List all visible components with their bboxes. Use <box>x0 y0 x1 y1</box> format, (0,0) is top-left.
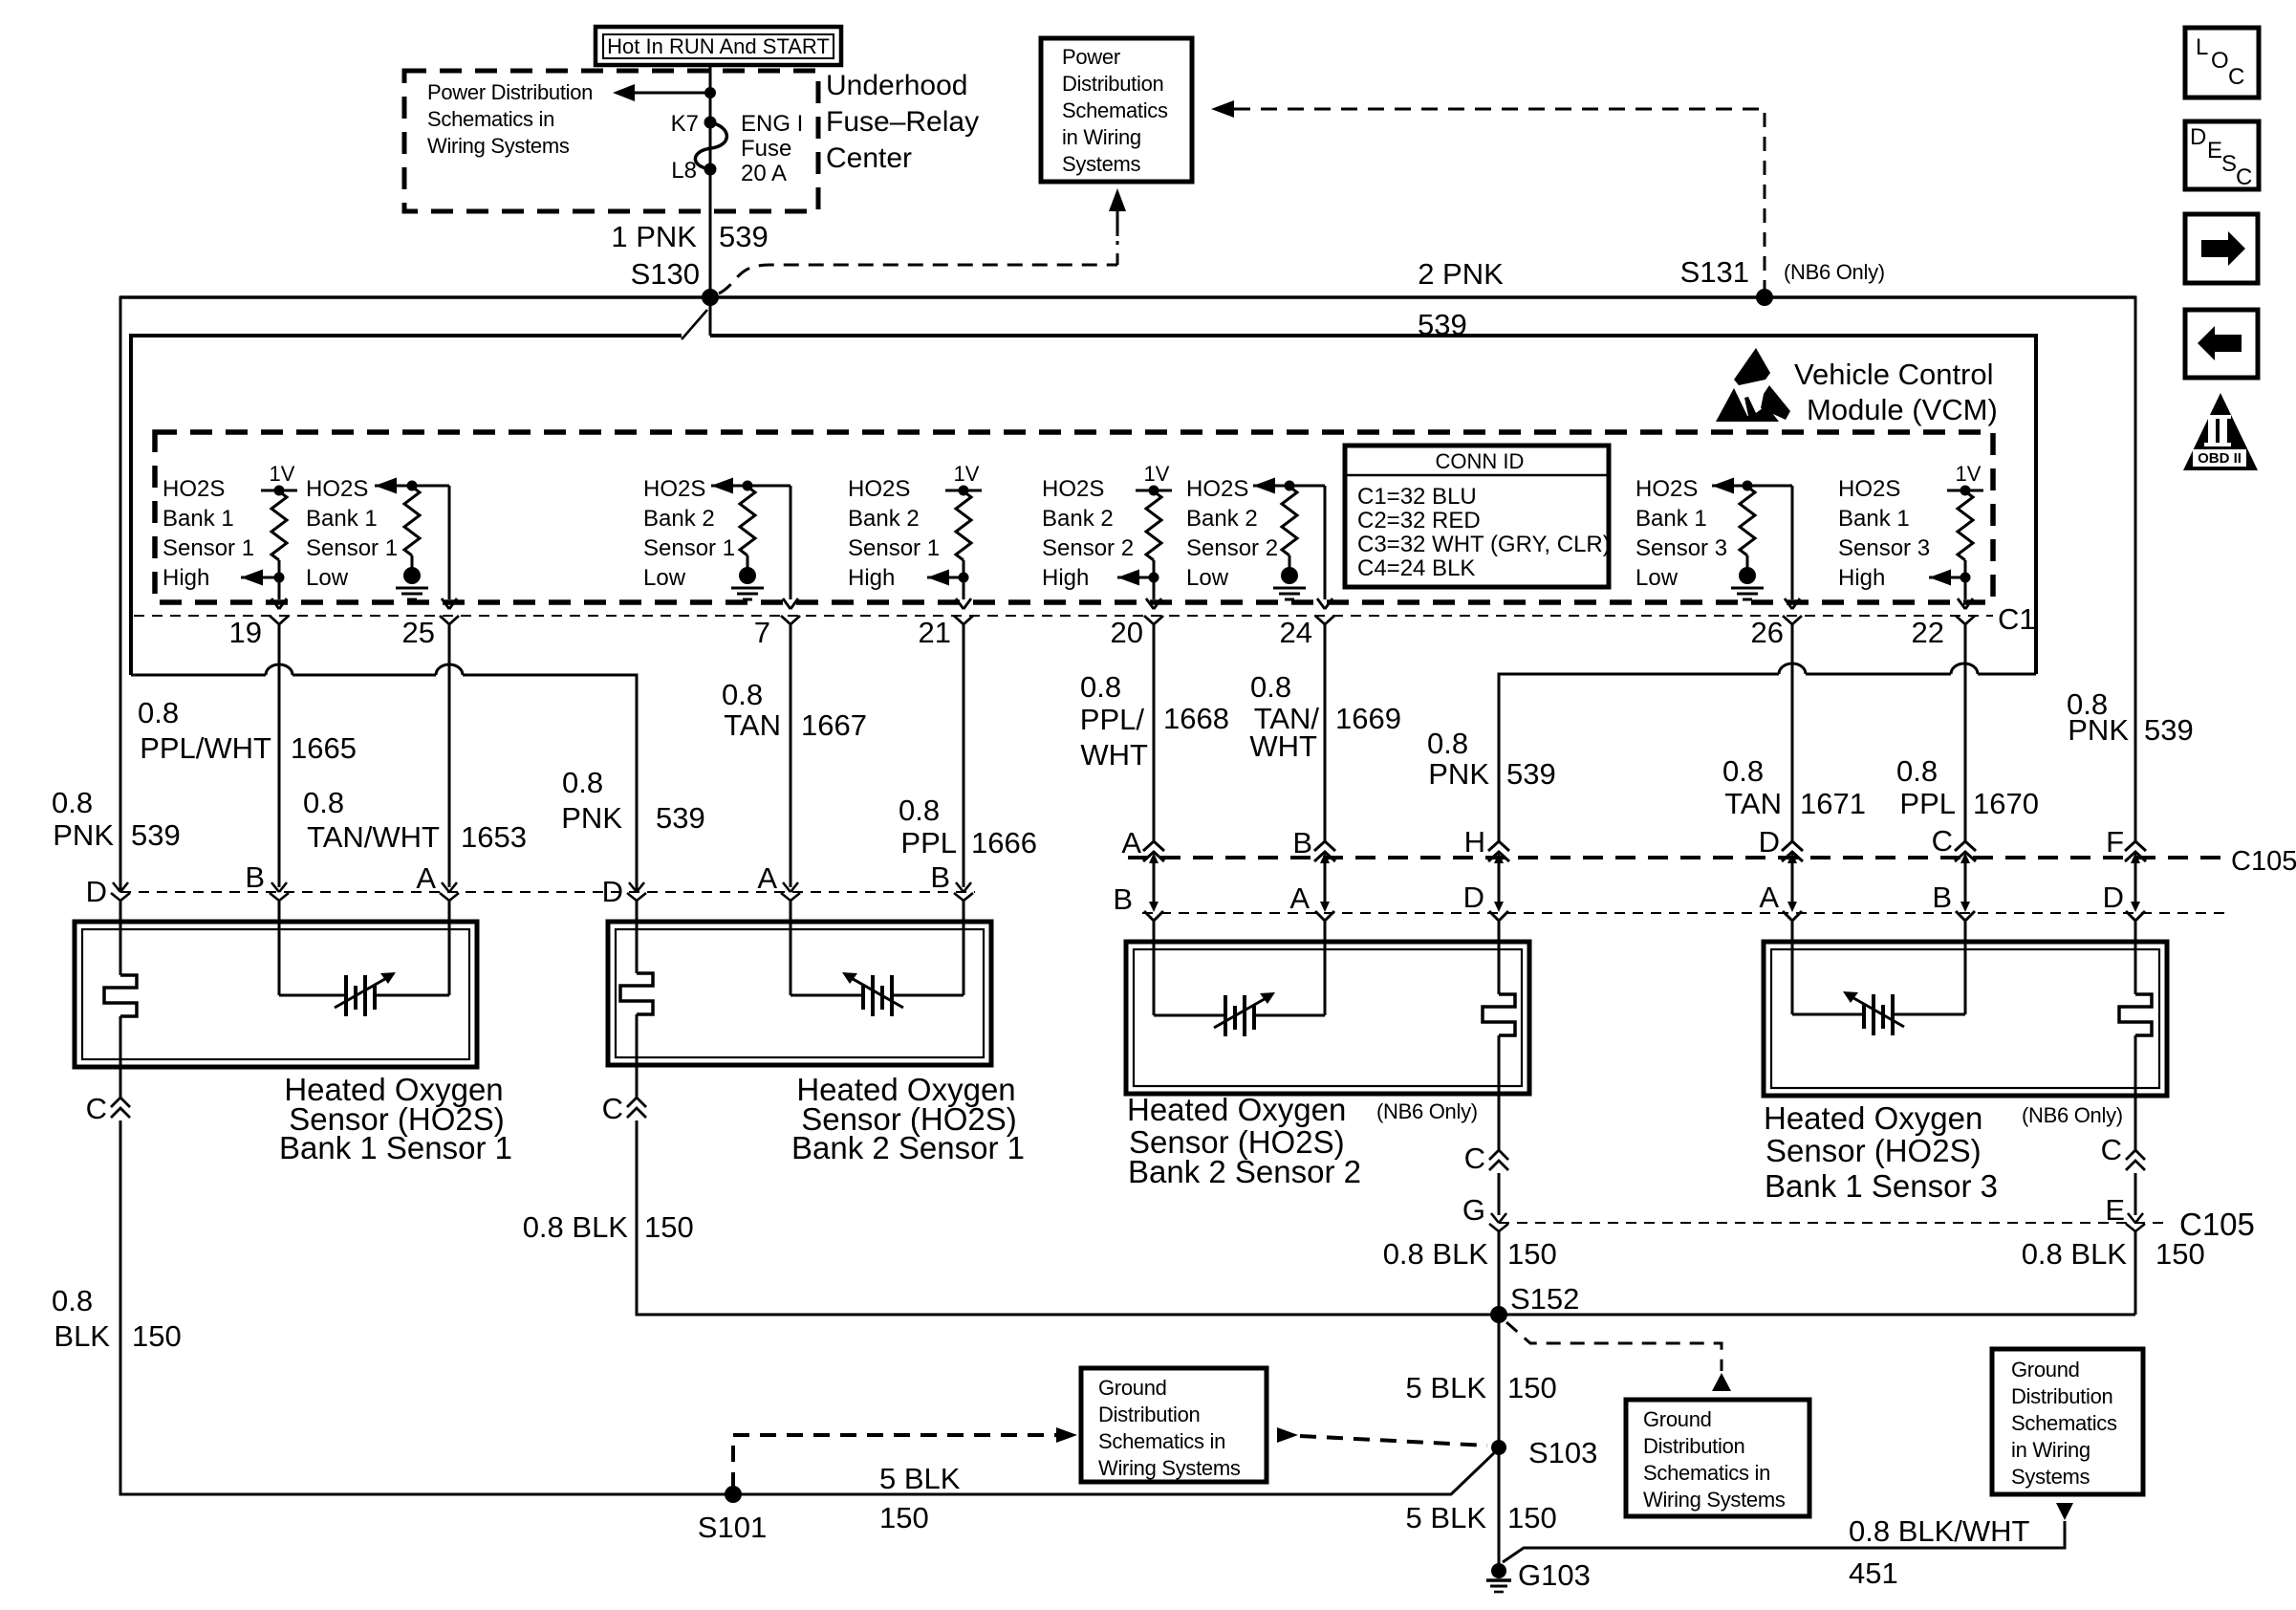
connector crossing at x=666 <box>627 882 646 901</box>
Power Distribution Schematics box (top middle) <box>1041 38 1192 182</box>
svg-text:0.8: 0.8 <box>1080 670 1121 704</box>
svg-text:TAN/WHT: TAN/WHT <box>307 820 440 854</box>
svg-text:HO2S: HO2S <box>1838 476 1900 502</box>
wire 1671 (pin 26 to sensor4 A) <box>1791 624 1794 1014</box>
svg-text:Sensor 1: Sensor 1 <box>848 535 940 561</box>
svg-text:150: 150 <box>1507 1237 1557 1271</box>
svg-text:0.8: 0.8 <box>899 794 940 827</box>
svg-text:E: E <box>2207 138 2222 163</box>
svg-text:539: 539 <box>131 818 181 852</box>
ESD triangle icon <box>1716 348 1790 422</box>
svg-text:Power Distribution: Power Distribution <box>427 80 593 104</box>
label 5 BLK 150 (S152 to S103) <box>1406 1371 1557 1404</box>
svg-text:S: S <box>2221 151 2237 177</box>
label Heated Oxygen Sensor (HO2S) Bank 2 Sensor 1 <box>791 1072 1025 1165</box>
svg-text:1669: 1669 <box>1335 702 1401 735</box>
svg-text:H: H <box>1464 825 1485 859</box>
svg-text:A: A <box>1121 826 1141 859</box>
arrow into Ground box 3 <box>2056 1503 2073 1520</box>
svg-text:150: 150 <box>2155 1237 2205 1271</box>
label 0.8 PPL 1670 <box>1896 754 2039 820</box>
label Heated Oxygen Sensor (HO2S) Bank 1 Sensor 3 <box>1764 1100 1998 1204</box>
C105 crossing at x=2056 <box>1955 841 1976 863</box>
svg-text:1671: 1671 <box>1800 787 1866 820</box>
sensor element sensor2 <box>791 972 964 1016</box>
label Underhood Fuse-Relay Center <box>826 70 979 174</box>
svg-text:Sensor (HO2S): Sensor (HO2S) <box>1765 1133 1982 1168</box>
right arrow icon <box>2185 214 2258 283</box>
dashed ref from S131 to Power Distribution box <box>1211 100 1765 294</box>
label 0.8 BLK 150 (sensor3 G wire) <box>1383 1237 1557 1271</box>
svg-text:1665: 1665 <box>291 731 357 765</box>
svg-text:Sensor 1: Sensor 1 <box>306 535 398 561</box>
svg-text:C: C <box>2101 1133 2122 1166</box>
svg-text:0.8: 0.8 <box>1250 670 1291 704</box>
label 1 PNK 539 <box>611 220 768 253</box>
node S103 <box>1491 1440 1506 1455</box>
label 5 BLK 150 (S103 to G103) <box>1406 1501 1557 1534</box>
dashed ref from S101 to Ground box 1 <box>733 1427 1077 1489</box>
label 0.8 BLK 150 (sensor4 E wire) <box>2022 1237 2205 1271</box>
svg-text:1 PNK: 1 PNK <box>611 220 697 253</box>
label 0.8 BLK 150 (sensor1 C wire) <box>52 1284 182 1353</box>
svg-text:PPL: PPL <box>900 826 957 859</box>
sensor element sensor1 <box>279 972 449 1016</box>
VCM bottom-right wire segment (0.8 PNK 539 to sensor 3) with bumps <box>1499 664 2036 1571</box>
svg-text:Bank 1: Bank 1 <box>1838 506 1910 532</box>
VCM pin 22 circuit: HO2S Bank 1 Sensor 3 High (1V + resistor) <box>1929 462 1983 624</box>
svg-text:A: A <box>757 861 777 895</box>
Underhood Fuse-Relay Center dashed box <box>404 71 818 211</box>
connector crossing at x=2234 row2 <box>2126 902 2145 921</box>
svg-text:25: 25 <box>402 616 435 649</box>
svg-text:C: C <box>1464 1142 1485 1175</box>
svg-text:1668: 1668 <box>1163 702 1229 735</box>
svg-text:Module (VCM): Module (VCM) <box>1807 393 1998 426</box>
arrow out of Ground box 1 (right) <box>1277 1427 1298 1443</box>
svg-text:E: E <box>2105 1193 2125 1227</box>
svg-text:150: 150 <box>644 1210 694 1244</box>
svg-text:D: D <box>2103 881 2124 914</box>
svg-text:Low: Low <box>643 565 686 591</box>
svg-text:21: 21 <box>919 616 951 649</box>
svg-text:D: D <box>2190 124 2206 150</box>
svg-text:G: G <box>1462 1193 1485 1227</box>
sensor3/4 connector dashed line <box>1142 912 2227 914</box>
VCM pin 20 circuit: HO2S Bank 2 Sensor 2 High (1V + resistor) <box>1117 462 1172 624</box>
svg-text:0.8: 0.8 <box>562 766 603 799</box>
svg-text:A: A <box>1289 881 1310 915</box>
C105 crossing at x=1568 <box>1488 841 1509 863</box>
svg-text:150: 150 <box>132 1319 182 1353</box>
VCM pin 19 circuit: HO2S Bank 1 Sensor 1 High (1V + resistor) <box>241 462 297 624</box>
svg-text:Schematics: Schematics <box>1062 98 1168 122</box>
svg-text:(NB6 Only): (NB6 Only) <box>1376 1099 1478 1123</box>
label 2 PNK 539 <box>1418 257 1504 341</box>
svg-text:D: D <box>1759 825 1780 859</box>
node S130 <box>702 289 719 306</box>
label 0.8 TAN 1671 <box>1722 754 1866 820</box>
svg-text:B: B <box>245 860 265 894</box>
svg-text:1667: 1667 <box>801 708 867 742</box>
connector crossing at x=470 <box>440 882 459 901</box>
label 0.8 PPL/WHT 1665 <box>138 696 357 765</box>
svg-text:Schematics: Schematics <box>2011 1411 2117 1435</box>
label 0.8 PPL/WHT 1668 <box>1080 670 1229 772</box>
svg-text:C1=32 BLU: C1=32 BLU <box>1357 484 1477 510</box>
svg-text:PPL/: PPL/ <box>1080 703 1145 736</box>
svg-text:0.8: 0.8 <box>138 696 179 729</box>
wire 1669 (pin 24 to sensor3 B) <box>1324 624 1327 1015</box>
svg-text:150: 150 <box>1507 1501 1557 1534</box>
svg-text:Power: Power <box>1062 45 1120 69</box>
svg-text:150: 150 <box>1507 1371 1557 1404</box>
svg-text:0.8: 0.8 <box>1722 754 1764 788</box>
svg-text:Underhood: Underhood <box>826 70 967 101</box>
crossing G at 1568 <box>1489 1213 1508 1231</box>
svg-text:Sensor 1: Sensor 1 <box>643 535 735 561</box>
label 0.8 PPL 1666 <box>899 794 1037 859</box>
svg-text:5 BLK: 5 BLK <box>1406 1501 1487 1534</box>
svg-text:22: 22 <box>1912 616 1944 649</box>
svg-text:Bank 1 Sensor 1: Bank 1 Sensor 1 <box>279 1130 512 1165</box>
svg-text:HO2S: HO2S <box>1635 476 1698 502</box>
svg-text:0.8: 0.8 <box>1896 754 1938 788</box>
svg-text:Bank 2: Bank 2 <box>1186 506 1258 532</box>
svg-text:Schematics in: Schematics in <box>1643 1461 1770 1485</box>
VCM pin 25 circuit: HO2S Bank 1 Sensor 1 Low (resistor + ground) <box>375 478 459 625</box>
svg-text:B: B <box>930 860 950 894</box>
outer right wire (0.8 PNK 539 to C105 F) <box>2134 296 2137 1316</box>
label 0.8 PNK 539 (left wire) <box>52 786 181 852</box>
svg-text:1V: 1V <box>1956 462 1982 486</box>
svg-text:26: 26 <box>1751 616 1784 649</box>
svg-text:C: C <box>2228 64 2244 90</box>
VCM pin 26 circuit: HO2S Bank 1 Sensor 3 Low (resistor + ground) <box>1712 478 1802 625</box>
svg-text:B: B <box>1113 882 1133 916</box>
connector crossing at x=1875 row2 <box>1783 902 1802 921</box>
sensor2 pin C chevrons <box>627 1098 646 1118</box>
label 0.8 PNK 539 (sensor2 D) <box>561 766 704 835</box>
svg-text:Systems: Systems <box>2011 1465 2090 1489</box>
svg-text:Heated Oxygen: Heated Oxygen <box>1764 1100 1982 1136</box>
svg-text:S131: S131 <box>1680 255 1749 289</box>
svg-text:C: C <box>1932 824 1953 858</box>
C105 crossing at x=1875 <box>1782 841 1803 863</box>
svg-text:5 BLK: 5 BLK <box>879 1462 961 1495</box>
S130 break slash <box>682 310 707 339</box>
label 0.8 BLK/WHT 451 <box>1849 1514 2030 1590</box>
svg-text:7: 7 <box>754 616 770 649</box>
svg-text:Distribution: Distribution <box>1098 1403 1200 1426</box>
svg-text:1666: 1666 <box>971 826 1037 859</box>
svg-text:Bank 2: Bank 2 <box>643 506 715 532</box>
label Heated Oxygen Sensor (HO2S) Bank 1 Sensor 1 <box>279 1072 512 1165</box>
svg-text:OBD II: OBD II <box>2198 450 2242 467</box>
heater element sensor1 <box>104 975 137 1016</box>
label Vehicle Control Module (VCM) <box>1794 358 1998 426</box>
connector crossing at x=292 <box>270 882 289 901</box>
CONN ID table <box>1345 446 1611 587</box>
svg-text:0.8 BLK: 0.8 BLK <box>523 1210 629 1244</box>
svg-text:C2=32 RED: C2=32 RED <box>1357 508 1481 533</box>
top bus wire 2 PNK 539 <box>120 295 2135 299</box>
svg-text:C: C <box>2236 164 2252 190</box>
svg-text:(NB6 Only): (NB6 Only) <box>1784 260 1885 284</box>
svg-text:Bank 2: Bank 2 <box>1042 506 1114 532</box>
Heated Oxygen Sensor box 3 <box>1126 942 1529 1094</box>
wire from Hot box to fuse <box>709 65 712 297</box>
heater element sensor3 <box>1483 994 1515 1035</box>
svg-text:K7: K7 <box>671 111 699 137</box>
svg-text:HO2S: HO2S <box>1042 476 1104 502</box>
svg-text:24: 24 <box>1280 616 1312 649</box>
svg-text:High: High <box>1042 565 1089 591</box>
svg-text:539: 539 <box>719 220 769 253</box>
svg-text:WHT: WHT <box>1249 729 1317 763</box>
svg-text:Sensor 3: Sensor 3 <box>1635 535 1727 561</box>
svg-text:PPL: PPL <box>1899 787 1956 820</box>
svg-text:0.8 BLK/WHT: 0.8 BLK/WHT <box>1849 1514 2030 1548</box>
wire to power distribution (left arrow) <box>613 84 716 101</box>
svg-text:Bank 2 Sensor 1: Bank 2 Sensor 1 <box>791 1130 1025 1165</box>
svg-text:Bank 1 Sensor 3: Bank 1 Sensor 3 <box>1765 1168 1998 1204</box>
svg-text:in Wiring: in Wiring <box>1062 125 1141 149</box>
svg-text:Heated Oxygen: Heated Oxygen <box>1127 1092 1346 1127</box>
svg-text:C: C <box>86 1092 107 1125</box>
dashed ref from S152 to Ground Distribution box 2 <box>1506 1322 1731 1391</box>
svg-text:Schematics in: Schematics in <box>427 107 554 131</box>
svg-text:1670: 1670 <box>1973 787 2039 820</box>
svg-text:2 PNK: 2 PNK <box>1418 257 1504 291</box>
svg-text:in Wiring: in Wiring <box>2011 1438 2090 1462</box>
label Power Distribution Schematics in Wiring Systems (fuse box ref) <box>427 80 593 158</box>
svg-text:20: 20 <box>1111 616 1143 649</box>
label 0.8 PNK 539 (right wire) <box>2067 687 2194 747</box>
svg-text:(NB6 Only): (NB6 Only) <box>2022 1103 2123 1127</box>
wire 1668 (pin 20 to sensor3 A) <box>1153 624 1156 1015</box>
svg-text:Bank 1: Bank 1 <box>1635 506 1707 532</box>
svg-text:5 BLK: 5 BLK <box>1406 1371 1487 1404</box>
svg-text:TAN: TAN <box>1724 787 1782 820</box>
svg-text:WHT: WHT <box>1080 738 1148 772</box>
svg-text:Wiring Systems: Wiring Systems <box>427 134 570 158</box>
Hot In RUN And START box <box>596 27 841 65</box>
VCM C1 connector dashed box <box>155 432 1993 602</box>
svg-text:Fuse–Relay: Fuse–Relay <box>826 106 979 138</box>
svg-text:Bank 2 Sensor 2: Bank 2 Sensor 2 <box>1128 1154 1361 1189</box>
svg-text:ENG I: ENG I <box>741 111 803 137</box>
label 0.8 TAN/WHT 1669 <box>1249 670 1401 763</box>
svg-text:Sensor 3: Sensor 3 <box>1838 535 1930 561</box>
outer left wire (0.8 PNK 539 to sensor 1) <box>120 296 1498 1495</box>
VCM pin 24 circuit: HO2S Bank 2 Sensor 2 Low (resistor + ground) <box>1253 478 1334 625</box>
svg-text:B: B <box>1932 881 1952 914</box>
svg-text:Fuse: Fuse <box>741 136 791 162</box>
svg-text:Distribution: Distribution <box>1062 72 1163 96</box>
svg-text:C1: C1 <box>1998 602 2036 636</box>
svg-text:Distribution: Distribution <box>1643 1434 1744 1458</box>
svg-text:S152: S152 <box>1510 1282 1579 1316</box>
svg-text:Sensor 2: Sensor 2 <box>1186 535 1278 561</box>
svg-text:0.8 BLK: 0.8 BLK <box>2022 1237 2128 1271</box>
sensor element sensor4 <box>1792 991 1965 1035</box>
connector crossing at x=126 <box>111 882 130 901</box>
svg-text:CONN ID: CONN ID <box>1436 449 1525 473</box>
svg-text:PNK: PNK <box>1428 757 1489 791</box>
svg-text:Bank 2: Bank 2 <box>848 506 920 532</box>
svg-text:0.8: 0.8 <box>303 786 344 819</box>
VCM bottom-left wire segment (0.8 PNK 539 to sensor 2) with bumps <box>131 664 2135 1315</box>
svg-text:S101: S101 <box>698 1511 767 1544</box>
svg-text:Ground: Ground <box>2011 1358 2080 1382</box>
svg-text:High: High <box>162 565 209 591</box>
svg-text:F: F <box>2106 825 2124 859</box>
Heated Oxygen Sensor box 1 <box>75 922 477 1067</box>
label 5 BLK 150 (S101 wire) <box>879 1462 961 1534</box>
svg-text:1V: 1V <box>954 462 980 486</box>
C105 lower connector dashed line <box>1499 1222 2168 1224</box>
svg-text:Ground: Ground <box>1643 1407 1712 1431</box>
C1 connector thin dashed line <box>134 615 1993 617</box>
label 0.8 PNK 539 (sensor3 H) <box>1427 727 1556 791</box>
left arrow icon <box>2185 310 2258 378</box>
C105 crossing at x=1207 <box>1143 841 1164 863</box>
svg-text:L8: L8 <box>671 158 697 184</box>
svg-text:Low: Low <box>1635 565 1679 591</box>
svg-text:Bank 1: Bank 1 <box>162 506 234 532</box>
LOC icon <box>2185 28 2259 98</box>
svg-text:D: D <box>602 875 623 908</box>
node S131 <box>1756 289 1773 306</box>
svg-text:150: 150 <box>879 1501 929 1534</box>
svg-text:S130: S130 <box>631 257 700 291</box>
Heated Oxygen Sensor box 4 <box>1764 942 2167 1096</box>
svg-text:Systems: Systems <box>1062 152 1141 176</box>
fuse ENG I 20A <box>695 117 726 176</box>
sensor element sensor3 <box>1154 992 1325 1036</box>
node S101 <box>725 1486 742 1503</box>
svg-text:Wiring Systems: Wiring Systems <box>1098 1456 1241 1480</box>
svg-text:PNK: PNK <box>561 801 622 835</box>
sensor1/2 connector dashed line <box>120 891 975 893</box>
DESC icon <box>2185 121 2259 190</box>
dashed ref from S130 up to Power Distribution box <box>719 188 1126 294</box>
wire 1670 (pin 22 to sensor4 B) <box>1964 624 1967 1014</box>
svg-text:A: A <box>1759 881 1779 914</box>
svg-text:High: High <box>848 565 895 591</box>
connector crossing at x=827 <box>781 882 800 901</box>
svg-text:Distribution: Distribution <box>2011 1384 2112 1408</box>
connector crossing at x=1568 row2 <box>1489 902 1508 921</box>
node S152 <box>1490 1306 1507 1323</box>
svg-text:G103: G103 <box>1518 1558 1591 1592</box>
Ground Distribution Schematics box 2 <box>1626 1400 1809 1516</box>
label Heated Oxygen Sensor (HO2S) Bank 2 Sensor 2 <box>1127 1092 1361 1189</box>
heater element sensor4 <box>2119 994 2152 1035</box>
wire 451 BLK/WHT from G103 to Ground box 3 <box>1503 1521 2065 1562</box>
svg-text:O: O <box>2211 48 2229 74</box>
svg-text:L: L <box>2196 34 2208 60</box>
label ENG I Fuse 20 A <box>741 111 803 186</box>
label 0.8 TAN 1667 <box>722 678 867 742</box>
connector crossing at x=1386 row2 <box>1315 902 1334 921</box>
sensor1 pin C chevrons <box>111 1098 130 1118</box>
connector crossing at x=1207 row2 <box>1144 902 1163 921</box>
svg-text:High: High <box>1838 565 1885 591</box>
svg-text:D: D <box>86 875 107 908</box>
C105 connector dashed line <box>1128 856 2223 859</box>
wire 1666 (pin 21 to sensor2 B) <box>963 624 965 995</box>
svg-text:0.8: 0.8 <box>52 1284 93 1317</box>
VCM box outline <box>131 336 2036 675</box>
crossing E at 2234 <box>2126 1213 2145 1231</box>
svg-text:539: 539 <box>656 801 705 835</box>
svg-text:20 A: 20 A <box>741 161 787 186</box>
svg-text:HO2S: HO2S <box>162 476 225 502</box>
Ground Distribution Schematics box 3 <box>1992 1349 2143 1494</box>
svg-text:HO2S: HO2S <box>848 476 910 502</box>
svg-text:HO2S: HO2S <box>1186 476 1248 502</box>
svg-text:PPL/WHT: PPL/WHT <box>140 731 271 765</box>
svg-text:Schematics in: Schematics in <box>1098 1429 1225 1453</box>
wire 1665 (pin 19 to sensor1 B) <box>278 624 281 995</box>
svg-text:Sensor 1: Sensor 1 <box>162 535 254 561</box>
OBD II triangle icon <box>2183 393 2258 470</box>
label 0.8 BLK 150 (sensor2 C wire) <box>523 1210 694 1244</box>
C105 crossing at x=1386 <box>1314 841 1335 863</box>
svg-text:0.8: 0.8 <box>1427 727 1468 760</box>
svg-text:S103: S103 <box>1528 1436 1597 1469</box>
svg-text:1653: 1653 <box>461 820 527 854</box>
svg-text:539: 539 <box>2144 713 2194 747</box>
connector crossing at x=1008 <box>954 882 973 901</box>
svg-text:451: 451 <box>1849 1556 1898 1590</box>
sensor3 pin C chevrons <box>1489 1150 1508 1170</box>
VCM pin 7 circuit: HO2S Bank 2 Sensor 1 Low (resistor + ground) <box>711 478 800 625</box>
svg-text:PNK: PNK <box>2068 713 2129 747</box>
svg-text:C4=24 BLK: C4=24 BLK <box>1357 555 1475 581</box>
svg-text:0.8: 0.8 <box>52 786 93 819</box>
svg-text:Low: Low <box>306 565 349 591</box>
svg-text:C105: C105 <box>2231 846 2296 877</box>
svg-text:C: C <box>602 1092 623 1125</box>
svg-text:B: B <box>1292 826 1312 859</box>
sensor4 pin C chevrons <box>2126 1150 2145 1170</box>
svg-text:Hot In RUN And START: Hot In RUN And START <box>607 34 830 58</box>
svg-text:C3=32 WHT (GRY, CLR): C3=32 WHT (GRY, CLR) <box>1357 532 1611 557</box>
connector crossing at x=2056 row2 <box>1956 902 1975 921</box>
wire S130 drop to VCM edge <box>709 297 712 336</box>
svg-text:Bank 1: Bank 1 <box>306 506 378 532</box>
Ground Distribution Schematics box 1 <box>1081 1368 1267 1482</box>
svg-text:1V: 1V <box>1144 462 1170 486</box>
VCM pin 21 circuit: HO2S Bank 2 Sensor 1 High (1V + resistor) <box>927 462 982 624</box>
heater element sensor2 <box>620 973 653 1014</box>
svg-text:0.8: 0.8 <box>722 678 763 711</box>
Heated Oxygen Sensor box 2 <box>608 922 991 1065</box>
svg-text:HO2S: HO2S <box>643 476 705 502</box>
svg-text:Ground: Ground <box>1098 1376 1167 1400</box>
wire 1667 (pin 7 to sensor2 A) <box>790 624 792 995</box>
svg-text:BLK: BLK <box>54 1319 110 1353</box>
ground G103 <box>1486 1563 1511 1592</box>
svg-text:HO2S: HO2S <box>306 476 368 502</box>
svg-text:Wiring Systems: Wiring Systems <box>1643 1488 1786 1512</box>
label 0.8 TAN/WHT 1653 <box>303 786 527 854</box>
dashed ref from Ground box 1 to S103 <box>1300 1436 1487 1446</box>
svg-text:19: 19 <box>229 616 262 649</box>
